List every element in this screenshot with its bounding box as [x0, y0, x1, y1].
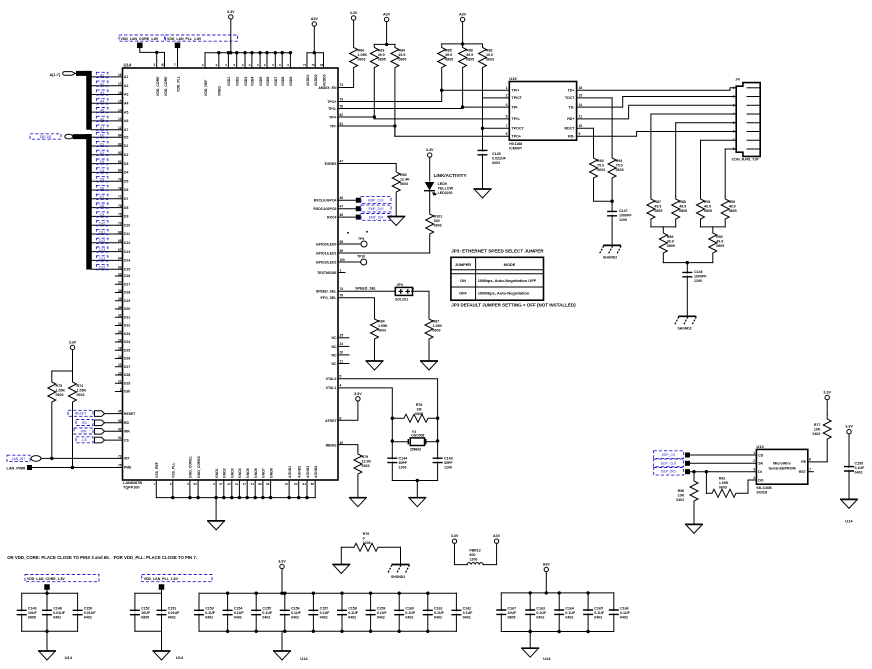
wire pin D5	[92, 180, 123, 182]
svg-text:D29: D29	[124, 381, 130, 385]
svg-text:0402: 0402	[620, 616, 628, 620]
svg-text:D13: D13	[99, 248, 105, 252]
svg-text:TD-: TD-	[569, 105, 576, 109]
svg-text:25: 25	[340, 334, 344, 338]
svg-text:C145: C145	[492, 152, 501, 156]
svg-text:10UF: 10UF	[508, 611, 518, 615]
svg-text:76: 76	[118, 204, 122, 208]
net label A6	[96, 116, 108, 121]
wire R87/R88 join	[651, 226, 676, 228]
svg-text:0402: 0402	[262, 616, 270, 620]
wire ground rail bottom	[156, 497, 315, 499]
svg-text:1: 1	[340, 268, 342, 272]
wire pin A2	[92, 85, 123, 87]
svg-text:GND2: GND2	[223, 468, 227, 478]
svg-text:CS: CS	[758, 453, 764, 457]
pin stub D28	[115, 374, 122, 376]
resistor R86 1.05K	[350, 20, 358, 87]
wire pin D4	[92, 171, 123, 173]
svg-text:37: 37	[118, 281, 122, 285]
svg-text:C165: C165	[594, 607, 603, 611]
svg-text:2: 2	[120, 388, 122, 392]
svg-text:EEP_DIO: EEP_DIO	[661, 470, 676, 474]
svg-text:JP3: ETHERNET SPEED SELECT JUM: JP3: ETHERNET SPEED SELECT JUMPER	[451, 249, 544, 254]
svg-text:0403: 0403	[362, 464, 370, 468]
svg-text:D9: D9	[124, 215, 128, 219]
svg-text:34: 34	[118, 305, 122, 309]
resistor R74 1.05K	[69, 371, 77, 467]
svg-text:SHGND2: SHGND2	[391, 575, 405, 579]
svg-text:GPIO2/LED2: GPIO2/LED2	[316, 261, 337, 265]
wire stub AVDD2	[314, 53, 316, 68]
svg-text:RXCLK/GPO4: RXCLK/GPO4	[314, 199, 337, 203]
svg-text:R96: R96	[678, 489, 685, 493]
wire TPICT center tap	[483, 97, 510, 99]
svg-text:D5: D5	[100, 178, 104, 182]
svg-text:47: 47	[340, 159, 344, 163]
svg-text:0603: 0603	[492, 161, 500, 165]
svg-text:0.1UF: 0.1UF	[205, 611, 216, 615]
wire pin RXDCA/GPO3	[338, 208, 356, 210]
svg-text:79: 79	[340, 97, 344, 101]
svg-text:ICM00T: ICM00T	[509, 147, 523, 151]
svg-text:95: 95	[118, 410, 122, 414]
net label A3	[96, 90, 108, 95]
svg-text:7: 7	[809, 468, 811, 472]
wire stub VDD4	[251, 53, 253, 68]
wire pin A3	[92, 94, 123, 96]
svg-text:21: 21	[118, 380, 122, 384]
svg-text:96: 96	[266, 482, 270, 486]
ground R87b	[420, 360, 438, 362]
svg-text:PFO_SEL: PFO_SEL	[321, 296, 338, 300]
capacitor C156 0.1UF	[284, 593, 286, 611]
wire AMDIX_EN	[338, 87, 354, 89]
svg-text:A3V: A3V	[459, 13, 467, 17]
net label D1	[96, 141, 108, 146]
svg-text:AGND3: AGND3	[306, 466, 310, 478]
svg-text:93: 93	[118, 419, 122, 423]
resistor R77 10K	[826, 400, 828, 415]
svg-text:RD+: RD+	[567, 117, 574, 121]
bus A thick entry	[76, 71, 89, 76]
net label EMF_DIO	[356, 206, 361, 211]
svg-text:0402: 0402	[205, 616, 213, 620]
svg-text:AGND1: AGND1	[288, 466, 292, 478]
pin stub D29	[115, 382, 122, 384]
svg-text:3.3V: 3.3V	[845, 425, 853, 429]
svg-text:63: 63	[118, 266, 122, 270]
svg-text:16: 16	[118, 73, 122, 77]
svg-text:0402: 0402	[348, 616, 356, 620]
svg-text:18: 18	[118, 91, 122, 95]
svg-text:INT: INT	[124, 457, 130, 461]
svg-text:R84: R84	[398, 49, 405, 53]
pin stub D26	[115, 358, 122, 360]
wire TPOCT center tap	[483, 98, 510, 128]
svg-text:D8: D8	[124, 206, 128, 210]
ground A3V cap bank	[529, 632, 531, 649]
svg-text:48: 48	[340, 196, 344, 200]
wire pin A1	[92, 76, 123, 78]
svg-text:C152: C152	[141, 607, 150, 611]
wire TPI- to U15 TPO+	[338, 126, 509, 136]
ground R76 left	[340, 547, 342, 564]
svg-text:U15: U15	[509, 76, 517, 81]
svg-text:0402: 0402	[676, 498, 684, 502]
wire EXRES	[338, 164, 396, 169]
svg-text:10: 10	[579, 124, 583, 128]
svg-text:0603: 0603	[486, 58, 494, 62]
wire stub VDD9	[289, 53, 291, 68]
svg-text:0.1UF: 0.1UF	[463, 611, 474, 615]
svg-text:30PF: 30PF	[444, 461, 453, 465]
svg-text:D4: D4	[124, 171, 128, 175]
svg-text:0.01UF: 0.01UF	[84, 611, 97, 615]
wire stub VDD8	[281, 53, 283, 68]
svg-text:2: 2	[753, 459, 755, 463]
svg-text:TPI-: TPI-	[512, 105, 520, 109]
svg-text:3.3V: 3.3V	[426, 148, 434, 152]
svg-text:D13: D13	[124, 250, 130, 254]
wire pin D11	[92, 233, 123, 235]
svg-text:VSS_REF: VSS_REF	[155, 461, 159, 478]
wire LAN_INT to pin INT	[41, 457, 123, 459]
svg-text:82: 82	[118, 151, 122, 155]
capacitor C156e 0.1UF	[848, 434, 850, 467]
wire RDCT stub to R93	[577, 127, 594, 129]
capacitor C143 30PF	[437, 441, 439, 459]
svg-text:R88: R88	[466, 49, 473, 53]
svg-text:0.022UF: 0.022UF	[492, 157, 507, 161]
capacitor C151 0.01UF	[161, 593, 163, 611]
svg-text:FOR VDD_PLL: PLACE CLOSE TO PI: FOR VDD_PLL: PLACE CLOSE TO PIN 7.	[114, 555, 197, 560]
svg-text:VDD_CORE: VDD_CORE	[156, 76, 160, 96]
svg-text:U14: U14	[300, 656, 308, 661]
svg-text:75: 75	[118, 463, 122, 467]
svg-text:0805: 0805	[508, 616, 516, 620]
svg-text:21: 21	[340, 359, 344, 363]
wire stub AVDD3	[323, 53, 325, 68]
net label CS	[76, 437, 93, 443]
wire pin WR	[105, 430, 123, 432]
svg-text:J4: J4	[735, 77, 740, 82]
net label EEP_CS	[654, 451, 684, 459]
svg-text:1.05K: 1.05K	[719, 481, 729, 485]
net label EEP_DIO	[654, 468, 684, 476]
svg-text:R82: R82	[486, 49, 493, 53]
svg-text:0402: 0402	[813, 432, 821, 436]
svg-text:AGND2: AGND2	[298, 466, 302, 478]
svg-text:54: 54	[251, 482, 255, 486]
svg-text:A3: A3	[124, 93, 128, 97]
svg-text:R101: R101	[434, 215, 443, 219]
svg-text:R90: R90	[729, 200, 736, 204]
net label D15	[96, 265, 108, 270]
svg-text:20: 20	[340, 351, 344, 355]
svg-text:GND_CORE2: GND_CORE2	[197, 456, 201, 478]
svg-text:13: 13	[118, 117, 122, 121]
net label A7	[96, 125, 108, 130]
svg-text:98: 98	[340, 240, 344, 244]
svg-text:C157: C157	[320, 607, 329, 611]
svg-text:A3V: A3V	[493, 534, 501, 538]
wire pin GND_CORE2	[197, 480, 199, 498]
svg-text:D[0:15]: D[0:15]	[40, 135, 52, 139]
svg-text:72: 72	[285, 482, 289, 486]
svg-text:C167: C167	[508, 607, 517, 611]
svg-text:100Mbps, Auto-Negotiation: 100Mbps, Auto-Negotiation	[478, 291, 530, 296]
pin J4.7	[747, 139, 760, 141]
svg-text:0.01UF: 0.01UF	[168, 611, 181, 615]
svg-text:C147: C147	[619, 209, 628, 213]
pin NC 20	[338, 354, 349, 356]
net label VDD_LAN_CORE_1.8V / VDD_LAN_PLL_1.8V	[119, 35, 165, 41]
svg-text:0805: 0805	[141, 616, 149, 620]
svg-text:C148: C148	[53, 607, 62, 611]
pin NC 21	[338, 363, 349, 365]
wire pin D3	[92, 163, 123, 165]
svg-text:0.1UF: 0.1UF	[234, 611, 245, 615]
svg-text:SPEED_SEL: SPEED_SEL	[355, 287, 377, 291]
svg-text:0.1UF: 0.1UF	[434, 611, 445, 615]
svg-text:1.05K: 1.05K	[358, 53, 368, 57]
svg-text:30PF: 30PF	[399, 461, 408, 465]
node square VDD_CORE	[137, 43, 143, 49]
resistor R84b 1.05K	[371, 315, 379, 360]
net label D13	[96, 247, 108, 252]
svg-text:PE: PE	[801, 460, 806, 464]
svg-text:0402: 0402	[291, 616, 299, 620]
svg-text:5: 5	[340, 375, 342, 379]
svg-text:DI: DI	[758, 470, 762, 474]
capacitor C164 0.1UF	[558, 593, 560, 611]
svg-text:1: 1	[506, 86, 508, 90]
power 3.3V for R75/R74	[70, 345, 74, 349]
svg-text:0805: 0805	[716, 244, 724, 248]
svg-text:34: 34	[227, 482, 231, 486]
wire stub VDD5	[259, 53, 261, 68]
svg-text:1.05K: 1.05K	[77, 389, 87, 393]
svg-text:NC: NC	[331, 345, 337, 349]
svg-text:TPO+: TPO+	[512, 135, 522, 139]
svg-text:49.9: 49.9	[445, 53, 452, 57]
svg-text:AVDD2: AVDD2	[314, 74, 318, 86]
resistor R78 1M	[392, 414, 437, 418]
svg-text:0603: 0603	[719, 485, 727, 489]
ground C145	[474, 188, 492, 190]
resistor R83 49.9	[370, 44, 378, 117]
capacitor C161 0.1UF	[427, 593, 429, 611]
svg-text:D8: D8	[100, 204, 104, 208]
resistor R91 49.9	[700, 140, 702, 196]
svg-text:0.1UF: 0.1UF	[291, 611, 302, 615]
wire pin A7	[92, 129, 123, 131]
net label A1	[96, 72, 108, 77]
svg-text:A6: A6	[100, 117, 104, 121]
svg-text:GND1: GND1	[215, 468, 219, 478]
pin J4.4	[747, 113, 760, 115]
svg-text:7: 7	[733, 138, 735, 142]
svg-text:NC: NC	[331, 353, 337, 357]
svg-text:C160: C160	[405, 607, 414, 611]
svg-text:0402: 0402	[168, 616, 176, 620]
ground R80	[387, 216, 405, 218]
svg-text:47: 47	[243, 482, 247, 486]
ground R84b	[366, 360, 384, 362]
wire pin AGND4	[314, 480, 316, 498]
wire GPIO0 to TP9	[338, 243, 361, 245]
svg-text:XTAL2: XTAL2	[326, 377, 337, 381]
svg-text:84: 84	[118, 134, 122, 138]
svg-text:FBR12: FBR12	[469, 549, 480, 553]
svg-text:GND8: GND8	[269, 468, 273, 478]
svg-text:A7: A7	[124, 128, 128, 132]
power 3.3V C156e	[847, 430, 851, 434]
wire cap bank rails	[199, 592, 457, 594]
svg-text:0603: 0603	[77, 393, 85, 397]
svg-text:U14: U14	[176, 655, 184, 660]
svg-text:16: 16	[579, 86, 583, 90]
pin stub D21	[115, 316, 122, 318]
svg-text:24: 24	[340, 342, 344, 346]
svg-text:MicroWire: MicroWire	[773, 462, 791, 466]
power A3V AVDD rail	[312, 22, 316, 26]
net label D5	[96, 177, 108, 182]
pin stub D18	[115, 292, 122, 294]
wire J4 pin8 row	[725, 148, 736, 150]
svg-text:AVDD3: AVDD3	[322, 74, 326, 86]
svg-text:0.1UF: 0.1UF	[536, 611, 547, 615]
svg-text:GND3: GND3	[231, 468, 235, 478]
svg-text:78: 78	[118, 186, 122, 190]
power A3V R85/R88/R82	[460, 17, 464, 21]
svg-text:C163: C163	[536, 607, 545, 611]
wire pin GND7	[262, 480, 264, 498]
svg-text:D16: D16	[124, 274, 130, 278]
svg-text:84: 84	[302, 482, 306, 486]
svg-text:83: 83	[118, 142, 122, 146]
svg-text:330: 330	[434, 219, 440, 223]
svg-text:1: 1	[733, 86, 735, 90]
wire pin D7	[92, 198, 123, 200]
resistor R89 49.9	[659, 227, 667, 263]
svg-text:AVDD1: AVDD1	[306, 74, 310, 86]
wire pin CS	[105, 439, 123, 441]
svg-text:4: 4	[733, 112, 735, 116]
svg-text:99: 99	[340, 249, 344, 253]
svg-text:78: 78	[340, 104, 344, 108]
svg-text:64: 64	[118, 257, 122, 261]
svg-text:R76: R76	[363, 532, 370, 536]
svg-text:R91: R91	[704, 200, 711, 204]
svg-text:RD: RD	[82, 421, 87, 425]
svg-text:75.0: 75.0	[597, 164, 604, 168]
svg-text:10.0: 10.0	[486, 53, 493, 57]
bus D vertical bar	[86, 134, 92, 270]
capacitor C147 1000PF	[607, 211, 617, 215]
net label D[0:15]	[30, 134, 61, 139]
svg-text:0.1UF: 0.1UF	[405, 611, 416, 615]
svg-text:R94: R94	[616, 159, 623, 163]
svg-text:C158: C158	[348, 607, 357, 611]
svg-text:D7: D7	[124, 197, 128, 201]
pin J4.2	[747, 96, 760, 98]
net label EMF_CLK	[356, 198, 361, 203]
net label D0	[96, 133, 108, 138]
svg-text:D14: D14	[99, 257, 105, 261]
capacitor C166 0.1UF	[613, 593, 615, 611]
svg-text:1: 1	[753, 451, 755, 455]
svg-text:RDCT: RDCT	[565, 127, 576, 131]
svg-text:A3V: A3V	[383, 13, 391, 17]
ground R79	[349, 497, 367, 499]
svg-text:A2: A2	[100, 82, 104, 86]
net label D10	[96, 221, 108, 226]
IC U13 serial EEPROM body	[756, 449, 807, 484]
svg-text:0402: 0402	[594, 616, 602, 620]
net label D3	[96, 159, 108, 164]
svg-text:67: 67	[118, 248, 122, 252]
svg-text:D2: D2	[124, 153, 128, 157]
svg-text:68: 68	[118, 239, 122, 243]
svg-text:AGND4: AGND4	[314, 466, 318, 478]
svg-text:D12: D12	[99, 239, 105, 243]
svg-text:0.1UF: 0.1UF	[377, 611, 388, 615]
wire pin D15	[92, 268, 123, 270]
svg-text:GND5: GND5	[246, 468, 250, 478]
capacitor C154 0.1UF	[227, 593, 229, 611]
pin stub D27	[115, 366, 122, 368]
svg-text:GPIO0/LED0: GPIO0/LED0	[316, 243, 337, 247]
svg-text:31: 31	[118, 322, 122, 326]
svg-text:80: 80	[118, 169, 122, 173]
svg-text:65: 65	[162, 63, 166, 67]
capacitor C153 0.1UF	[198, 593, 200, 611]
svg-text:VDD8: VDD8	[281, 77, 285, 86]
wire pin D14	[92, 259, 123, 261]
svg-text:24: 24	[118, 355, 122, 359]
wire TDCT stub to R94	[577, 97, 613, 99]
svg-text:10UF: 10UF	[141, 611, 151, 615]
svg-text:R87: R87	[433, 320, 440, 324]
svg-text:29: 29	[118, 338, 122, 342]
pin J4.8	[747, 148, 760, 150]
svg-text:1.05K: 1.05K	[56, 389, 66, 393]
wire GPIO1 to LED	[338, 252, 430, 254]
svg-text:A4: A4	[124, 102, 128, 106]
wire pin RXC4	[338, 216, 356, 218]
svg-text:VDD_CORE: VDD_CORE	[164, 76, 168, 96]
resistor R88b 49.9	[675, 123, 677, 196]
svg-text:NC: NC	[331, 362, 337, 366]
svg-text:3.3V: 3.3V	[354, 392, 362, 396]
svg-text:D6: D6	[100, 186, 104, 190]
net label RD	[76, 420, 93, 426]
svg-text:81: 81	[340, 122, 344, 126]
svg-text:0805: 0805	[654, 209, 662, 213]
net label D9	[96, 212, 108, 217]
svg-text:R80: R80	[400, 173, 407, 177]
svg-text:D15: D15	[124, 267, 130, 271]
svg-text:27: 27	[219, 482, 223, 486]
svg-text:TESTMODE: TESTMODE	[317, 271, 337, 275]
svg-text:OR VDD_CORE: PLACE CLOSE TO PI: OR VDD_CORE: PLACE CLOSE TO PINS 3 and 6…	[7, 555, 110, 560]
svg-text:D3: D3	[124, 162, 128, 166]
svg-text:VDD_REF: VDD_REF	[204, 79, 208, 96]
svg-text:0402: 0402	[536, 616, 544, 620]
svg-text:46: 46	[340, 213, 344, 217]
